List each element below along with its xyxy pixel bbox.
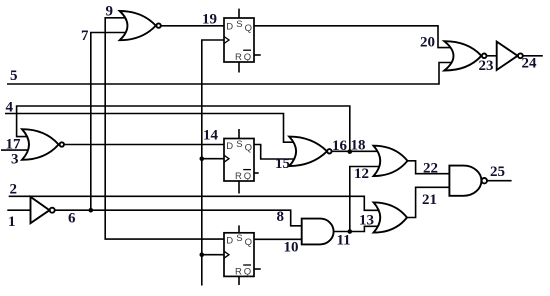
svg-text:R: R (235, 52, 242, 63)
svg-text:8: 8 (277, 209, 285, 225)
svg-text:5: 5 (10, 68, 18, 84)
svg-text:18: 18 (351, 138, 366, 154)
svg-text:9: 9 (106, 4, 114, 20)
svg-text:7: 7 (81, 28, 89, 44)
svg-text:S: S (236, 233, 242, 244)
svg-text:14: 14 (203, 128, 219, 144)
svg-text:R: R (235, 267, 242, 278)
svg-text:Q: Q (244, 171, 251, 182)
svg-text:17: 17 (6, 137, 22, 153)
svg-text:R: R (235, 171, 242, 182)
svg-text:S: S (236, 19, 242, 30)
svg-text:1: 1 (8, 214, 16, 230)
svg-text:20: 20 (420, 35, 435, 51)
svg-text:S: S (236, 139, 242, 150)
svg-text:Q: Q (245, 143, 252, 154)
svg-text:2: 2 (10, 182, 18, 198)
svg-text:12: 12 (354, 166, 369, 182)
svg-text:6: 6 (68, 211, 76, 227)
svg-text:D: D (226, 21, 233, 32)
svg-text:3: 3 (11, 152, 19, 168)
svg-text:Q: Q (245, 23, 252, 34)
svg-text:19: 19 (202, 12, 217, 28)
svg-text:13: 13 (359, 213, 374, 229)
svg-text:4: 4 (6, 100, 14, 116)
svg-text:15: 15 (275, 156, 290, 172)
svg-text:11: 11 (337, 233, 351, 249)
svg-text:Q: Q (245, 237, 252, 248)
svg-text:16: 16 (332, 138, 348, 154)
svg-text:22: 22 (423, 161, 438, 177)
svg-text:Q: Q (244, 52, 251, 63)
svg-text:21: 21 (422, 192, 437, 208)
svg-text:23: 23 (479, 58, 494, 74)
svg-text:24: 24 (522, 56, 538, 72)
svg-text:Q: Q (244, 267, 251, 278)
svg-text:D: D (226, 236, 233, 247)
svg-text:D: D (226, 141, 233, 152)
svg-text:10: 10 (284, 240, 299, 256)
svg-text:25: 25 (490, 164, 505, 180)
